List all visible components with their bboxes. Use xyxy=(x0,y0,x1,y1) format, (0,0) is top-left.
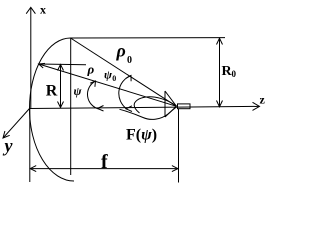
svg-text:z: z xyxy=(260,93,266,107)
svg-text:x: x xyxy=(40,3,46,17)
svg-text:R: R xyxy=(46,83,58,100)
svg-text:f: f xyxy=(101,151,108,173)
svg-text:0: 0 xyxy=(127,55,132,66)
svg-text:ρ: ρ xyxy=(87,62,95,77)
svg-text:0: 0 xyxy=(112,74,116,83)
svg-text:ρ: ρ xyxy=(116,41,126,61)
svg-text:F(ψ): F(ψ) xyxy=(126,127,157,144)
svg-text:ψ: ψ xyxy=(74,84,83,98)
svg-text:0: 0 xyxy=(232,69,237,79)
svg-text:y: y xyxy=(3,136,14,156)
